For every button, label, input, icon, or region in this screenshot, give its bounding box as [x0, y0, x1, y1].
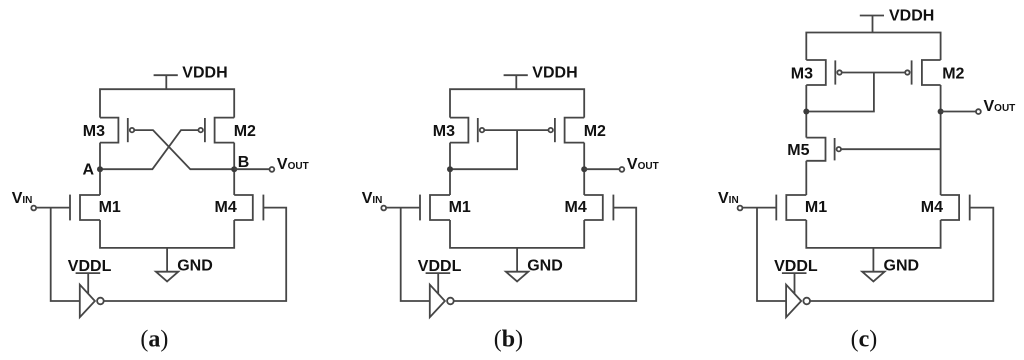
label VDDL (a): [68, 258, 112, 275]
net label VDDH (a): [182, 64, 227, 81]
junction left node dot (c): [803, 109, 809, 115]
terminal VIN (b): [381, 206, 386, 211]
wire right rail node segment (b): [583, 143, 585, 195]
svg-text:(a): (a): [140, 327, 168, 353]
label M1 (a): [99, 199, 121, 216]
power VDDH supply bar (c): [860, 16, 884, 33]
wire VIN branch to inverter input (a): [51, 208, 80, 301]
transistor M3 PMOS (b): [450, 118, 484, 143]
terminal VOUT (b): [620, 167, 625, 172]
svg-text:VDDL: VDDL: [774, 258, 818, 275]
svg-text:VDDL: VDDL: [418, 258, 462, 275]
wire right rail M2-M4 segment (c): [940, 85, 942, 195]
svg-text:GND: GND: [177, 257, 213, 274]
power VDDH supply bar (a): [154, 75, 178, 89]
svg-text:M3: M3: [791, 65, 813, 82]
label VOUT (b): [627, 156, 659, 173]
junction VOUT node dot (c): [938, 109, 944, 115]
wire left rail node segment (b): [449, 143, 451, 195]
wire node to VOUT terminal (c): [941, 111, 976, 113]
svg-text:VDDH: VDDH: [182, 64, 227, 81]
wire ground rail (b): [450, 220, 584, 248]
transistor M4 NMOS (a): [234, 195, 263, 221]
transistor M1 NMOS (a): [70, 195, 100, 221]
wire cross-couple M3 gate to node B (a): [134, 130, 234, 169]
label GND (c): [884, 257, 920, 274]
svg-text:M2: M2: [584, 123, 606, 140]
inverter U1 (a): [80, 285, 104, 318]
transistor M1 NMOS (c): [776, 195, 806, 221]
power VDDH supply bar (b): [504, 75, 528, 89]
power VDDL supply bar (a): [76, 273, 101, 294]
wire node B to VOUT terminal (b): [584, 168, 619, 170]
svg-text:A: A: [83, 161, 95, 178]
wire gate mirror M3-M2 (b): [484, 129, 548, 131]
label M2 (a): [234, 123, 256, 140]
label M4 (b): [565, 199, 587, 216]
junction node A dot (a): [97, 166, 103, 172]
label M5 (c): [787, 142, 809, 159]
label VDDL (b): [418, 258, 462, 275]
wire VDDH top rail (b): [450, 89, 584, 117]
terminal VOUT (a): [270, 167, 275, 172]
wire VIN to M1 gate (c): [743, 207, 777, 209]
label VIN (a): [12, 190, 33, 207]
svg-text:GND: GND: [527, 257, 563, 274]
label GND (a): [177, 257, 213, 274]
junction node A dot (b): [447, 166, 453, 172]
wire VIN branch to inverter input (b): [401, 208, 430, 301]
wire inverter output to M4 gate (c): [810, 208, 993, 301]
wire VDDH top rail (a): [100, 89, 234, 117]
svg-text:M1: M1: [449, 199, 471, 216]
wire right rail node segment (a): [233, 143, 235, 195]
transistor M2 PMOS (b): [549, 118, 585, 143]
label M4 (a): [215, 199, 237, 216]
wire mirror tap to left node (b): [450, 130, 517, 169]
inverter U1 (b): [430, 285, 454, 318]
caption (b): [494, 327, 523, 353]
svg-text:VDDH: VDDH: [532, 64, 577, 81]
transistor M3 PMOS (a): [100, 118, 134, 143]
junction node B dot (b): [581, 166, 587, 172]
transistor M1 NMOS (b): [420, 195, 450, 221]
wire mirror tap to left node (c): [806, 73, 874, 112]
label VOUT (a): [277, 156, 309, 173]
terminal VOUT (c): [976, 109, 981, 114]
transistor M5 PMOS (c): [806, 138, 841, 161]
svg-text:(b): (b): [494, 327, 523, 353]
wire M5 gate to VOUT rail (c): [841, 148, 941, 150]
inverter U1 (c): [786, 285, 810, 318]
wire left rail M5-M1 segment (c): [805, 161, 807, 195]
wire inverter output to M4 gate (b): [454, 208, 637, 301]
svg-text:M5: M5: [787, 142, 809, 159]
power VDDL supply bar (b): [426, 273, 451, 294]
label M3 (c): [791, 65, 813, 82]
label M4 (c): [921, 199, 943, 216]
wire gate mirror M3-M2 (c): [842, 72, 906, 74]
wire VIN to M1 gate (a): [36, 207, 70, 209]
junction node B dot (a): [231, 166, 237, 172]
wire VDDH top rail (c): [806, 33, 940, 61]
node label A (a): [83, 161, 95, 178]
label M2 (c): [942, 65, 964, 82]
wire inverter output to M4 gate (a): [104, 208, 287, 301]
label M1 (c): [805, 199, 827, 216]
transistor M4 NMOS (c): [941, 195, 970, 221]
net label VDDH (c): [889, 8, 934, 25]
wire ground rail (c): [806, 220, 940, 248]
svg-text:(c): (c): [851, 327, 878, 353]
wire cross-couple M2 gate to node A (a): [100, 130, 199, 169]
ground symbol (a): [156, 248, 178, 282]
svg-text:M3: M3: [433, 123, 455, 140]
label VIN (b): [362, 190, 383, 207]
svg-text:M2: M2: [234, 123, 256, 140]
ground symbol (c): [862, 248, 884, 282]
wire left rail node segment (a): [99, 143, 101, 195]
net label VDDH (b): [532, 64, 577, 81]
svg-text:GND: GND: [884, 257, 920, 274]
label GND (b): [527, 257, 563, 274]
transistor M3 PMOS (c): [806, 60, 841, 85]
transistor M2 PMOS (a): [199, 118, 235, 143]
caption (c): [851, 327, 878, 353]
svg-text:M4: M4: [921, 199, 943, 216]
transistor M2 PMOS (c): [905, 60, 940, 85]
power VDDL supply bar (c): [782, 273, 807, 294]
caption (a): [140, 327, 168, 353]
wire VIN branch to inverter input (c): [757, 208, 786, 301]
label VIN (c): [718, 190, 739, 207]
svg-text:M4: M4: [565, 199, 587, 216]
ground symbol (b): [506, 248, 528, 282]
svg-text:M1: M1: [99, 199, 121, 216]
wire ground rail (a): [100, 220, 234, 248]
label VDDL (c): [774, 258, 818, 275]
label M2 (b): [584, 123, 606, 140]
label VOUT (c): [984, 98, 1016, 115]
svg-text:M3: M3: [83, 123, 105, 140]
terminal VIN (c): [738, 206, 743, 211]
svg-text:M2: M2: [942, 65, 964, 82]
wire VIN to M1 gate (b): [386, 207, 420, 209]
label M3 (a): [83, 123, 105, 140]
wire node B to VOUT terminal (a): [234, 168, 269, 170]
wire left rail M3-M5 segment (c): [805, 85, 807, 138]
svg-text:M4: M4: [215, 199, 237, 216]
svg-text:VDDL: VDDL: [68, 258, 112, 275]
label M1 (b): [449, 199, 471, 216]
transistor M4 NMOS (b): [584, 195, 613, 221]
node label B (a): [238, 154, 250, 171]
svg-text:M1: M1: [805, 199, 827, 216]
svg-text:VDDH: VDDH: [889, 8, 934, 25]
terminal VIN (a): [31, 206, 36, 211]
label M3 (b): [433, 123, 455, 140]
